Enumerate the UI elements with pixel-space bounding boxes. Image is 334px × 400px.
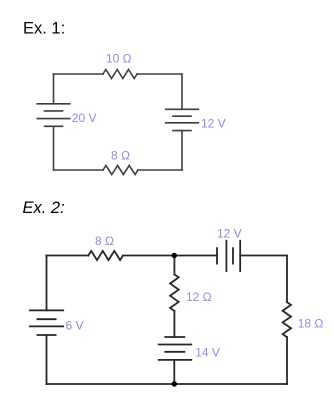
wire: circuit 2 top-right segment xyxy=(240,255,287,257)
resistor R4 12 ohm (middle, circuit 2) xyxy=(170,274,179,311)
svg-text:10 Ω: 10 Ω xyxy=(106,52,132,66)
wire: circuit 1 right upper xyxy=(181,74,183,109)
junction node (bottom middle, circuit 2) xyxy=(172,381,177,386)
svg-text:6 V: 6 V xyxy=(66,319,84,333)
wire: circuit 2 top-left segment xyxy=(47,255,89,257)
battery V1 20 V (left, circuit 1) xyxy=(37,103,70,105)
wire: circuit 1 left lower xyxy=(53,126,55,170)
wire: circuit 1 left upper xyxy=(53,74,55,104)
wire: circuit 2 top-middle segment xyxy=(123,255,217,257)
wire: circuit 2 middle branch upper xyxy=(173,256,175,275)
battery V5 14 V (middle, circuit 2) xyxy=(165,336,184,338)
wire: circuit 2 left lower xyxy=(46,335,48,384)
resistor R2 8 ohm (bottom, circuit 1) xyxy=(103,166,138,175)
wire: circuit 2 middle branch lower xyxy=(173,360,175,384)
svg-text:Ex. 2:: Ex. 2: xyxy=(23,199,65,217)
svg-text:8 Ω: 8 Ω xyxy=(111,149,130,163)
wire: circuit 1 top-left segment xyxy=(54,73,104,75)
wire: circuit 1 right lower xyxy=(181,131,183,170)
wire: circuit 2 middle branch between R4 and V5 xyxy=(173,311,175,337)
svg-text:12 V: 12 V xyxy=(217,227,242,241)
resistor R1 10 ohm (top, circuit 1) xyxy=(103,70,137,79)
svg-text:12 Ω: 12 Ω xyxy=(186,290,212,304)
svg-text:Ex. 1:: Ex. 1: xyxy=(23,20,65,38)
battery V3 12 V (top right, circuit 2) xyxy=(216,248,218,263)
svg-text:18 Ω: 18 Ω xyxy=(298,317,324,331)
wire: circuit 2 left upper xyxy=(46,256,48,311)
svg-text:14 V: 14 V xyxy=(195,345,220,359)
wire: circuit 1 bottom-right segment xyxy=(138,169,182,171)
wire: circuit 1 bottom-left segment xyxy=(54,169,104,171)
svg-text:12 V: 12 V xyxy=(201,116,226,130)
resistor R5 18 ohm (right, circuit 2) xyxy=(283,302,291,337)
wire: circuit 2 right upper xyxy=(286,256,288,303)
battery V2 12 V (right, circuit 1) xyxy=(166,108,199,110)
wire: circuit 2 bottom xyxy=(47,383,288,385)
battery V4 6 V (left, circuit 2) xyxy=(30,309,63,311)
resistor R3 8 ohm (top, circuit 2) xyxy=(88,251,123,260)
wire: circuit 2 right lower xyxy=(286,337,288,384)
junction node (top middle, circuit 2) xyxy=(172,253,177,258)
wire: circuit 1 top-right segment xyxy=(137,73,182,75)
svg-text:8 Ω: 8 Ω xyxy=(95,234,114,248)
svg-text:20 V: 20 V xyxy=(72,111,97,125)
